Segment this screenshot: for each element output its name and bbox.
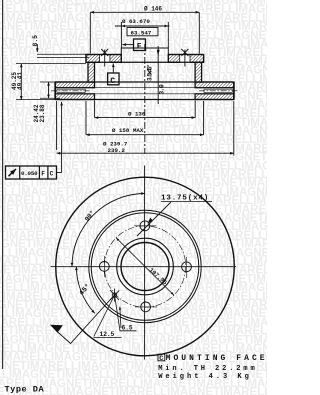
- mounting face note: [158, 354, 165, 361]
- bore recess circle: [117, 238, 174, 295]
- hat outer circles pair: [89, 210, 201, 322]
- svg-text:239.2: 239.2: [108, 147, 126, 154]
- 13.75(x4) label + leader: [137, 202, 171, 236]
- datum C box + leader: [108, 64, 119, 85]
- svg-text:MOUNTING FACE: MOUNTING FACE: [166, 354, 267, 363]
- svg-text:C: C: [110, 77, 115, 86]
- svg-text:3.5x45°: 3.5x45°: [146, 65, 153, 81]
- svg-text:Weight 4.3 Kg: Weight 4.3 Kg: [158, 373, 252, 381]
- stud hole gap left in flange: [100, 54, 190, 63]
- svg-text:0.050: 0.050: [21, 170, 38, 177]
- vertical centerline: [144, 166, 146, 360]
- mounting face (flange bottom): [86, 61, 204, 63]
- stud hole centerline right + cross: [184, 50, 186, 67]
- disc axis centerline: [144, 44, 146, 154]
- dimension 49.25/49.41: [16, 64, 86, 100]
- svg-text:3.0: 3.0: [159, 84, 166, 95]
- chamfer leader 3.5x45 / 3.0: [157, 46, 159, 104]
- stud hole N: [99, 221, 191, 312]
- SW reference point on PCD: [112, 293, 116, 297]
- dimension 24.42/23.88: [40, 82, 60, 98]
- runout tolerance frame: [6, 102, 62, 179]
- datum F box + leader: [122, 39, 145, 51]
- 45 deg dimension arc: [76, 267, 94, 314]
- svg-text:23.88: 23.88: [39, 104, 46, 122]
- svg-text:C: C: [50, 171, 54, 178]
- svg-text:49.41: 49.41: [16, 72, 23, 90]
- dimension D158 MAX: [86, 101, 204, 135]
- braking band left plates (hatched): [55, 82, 94, 88]
- braking band right plates (hatched): [195, 82, 234, 88]
- rotation direction arrow: [56, 295, 115, 344]
- flange ends: [85, 55, 87, 63]
- dimension D136: [95, 101, 196, 118]
- section outlines: [55, 55, 234, 100]
- 6.5 label + leader: [120, 307, 121, 329]
- center bore circle: [121, 243, 169, 291]
- hat wall left (hatched): [88, 62, 95, 82]
- svg-text:F: F: [41, 171, 45, 178]
- vent channel left inner lines: [57, 88, 86, 90]
- dimension D63.670/63.547: [115, 22, 170, 48]
- horizontal centerline: [51, 266, 237, 268]
- vent channel edges seen across: [51, 88, 238, 94]
- svg-text:Ø 146: Ø 146: [144, 6, 162, 13]
- svg-text:Ø 63.670: Ø 63.670: [122, 18, 150, 25]
- PCD 107.95 diagonal dimension line: [116, 238, 174, 295]
- mounting flange hatched: left of bore: [86, 55, 121, 63]
- hat wall right (hatched): [195, 62, 202, 82]
- band bottom edge: [55, 99, 234, 101]
- band outer edges: [54, 82, 56, 100]
- svg-text:Ø 158 MAX: Ø 158 MAX: [112, 127, 144, 134]
- mounting flange hatched: right of bore: [168, 55, 203, 63]
- svg-text:12.5: 12.5: [100, 331, 115, 338]
- dimension D239.7/239.2: [57, 101, 234, 156]
- 90 deg dimension arc: [72, 194, 145, 267]
- dimension D146: [90, 12, 199, 53]
- outer circle: [56, 177, 235, 356]
- vent channel right inner lines: [204, 88, 233, 90]
- stud hole centerline left + cross: [101, 49, 188, 67]
- 12.5 label + leaders: [94, 297, 114, 337]
- svg-text:Ø 136: Ø 136: [128, 110, 146, 117]
- stud hole gap right in flange: [180, 54, 190, 63]
- svg-text:63.547: 63.547: [131, 29, 152, 36]
- svg-text:C: C: [159, 355, 163, 363]
- svg-text:F: F: [137, 43, 142, 52]
- left page border line: [2, 0, 4, 369]
- bolt circle (dash-dot): [104, 226, 185, 307]
- svg-text:Min. TH 22.2mm: Min. TH 22.2mm: [158, 365, 257, 373]
- dimension 8.5: [37, 44, 89, 58]
- raised collar / bore mouth: [121, 48, 168, 62]
- svg-text:Type DA: Type DA: [5, 384, 45, 394]
- stud hole S: [141, 302, 151, 312]
- stud hole W: [99, 262, 109, 272]
- vent centerline dash: [51, 90, 90, 92]
- flange top edge: [86, 54, 121, 56]
- stud hole E: [182, 262, 192, 272]
- svg-text:8.5: 8.5: [32, 35, 39, 47]
- band top edge: [55, 81, 234, 83]
